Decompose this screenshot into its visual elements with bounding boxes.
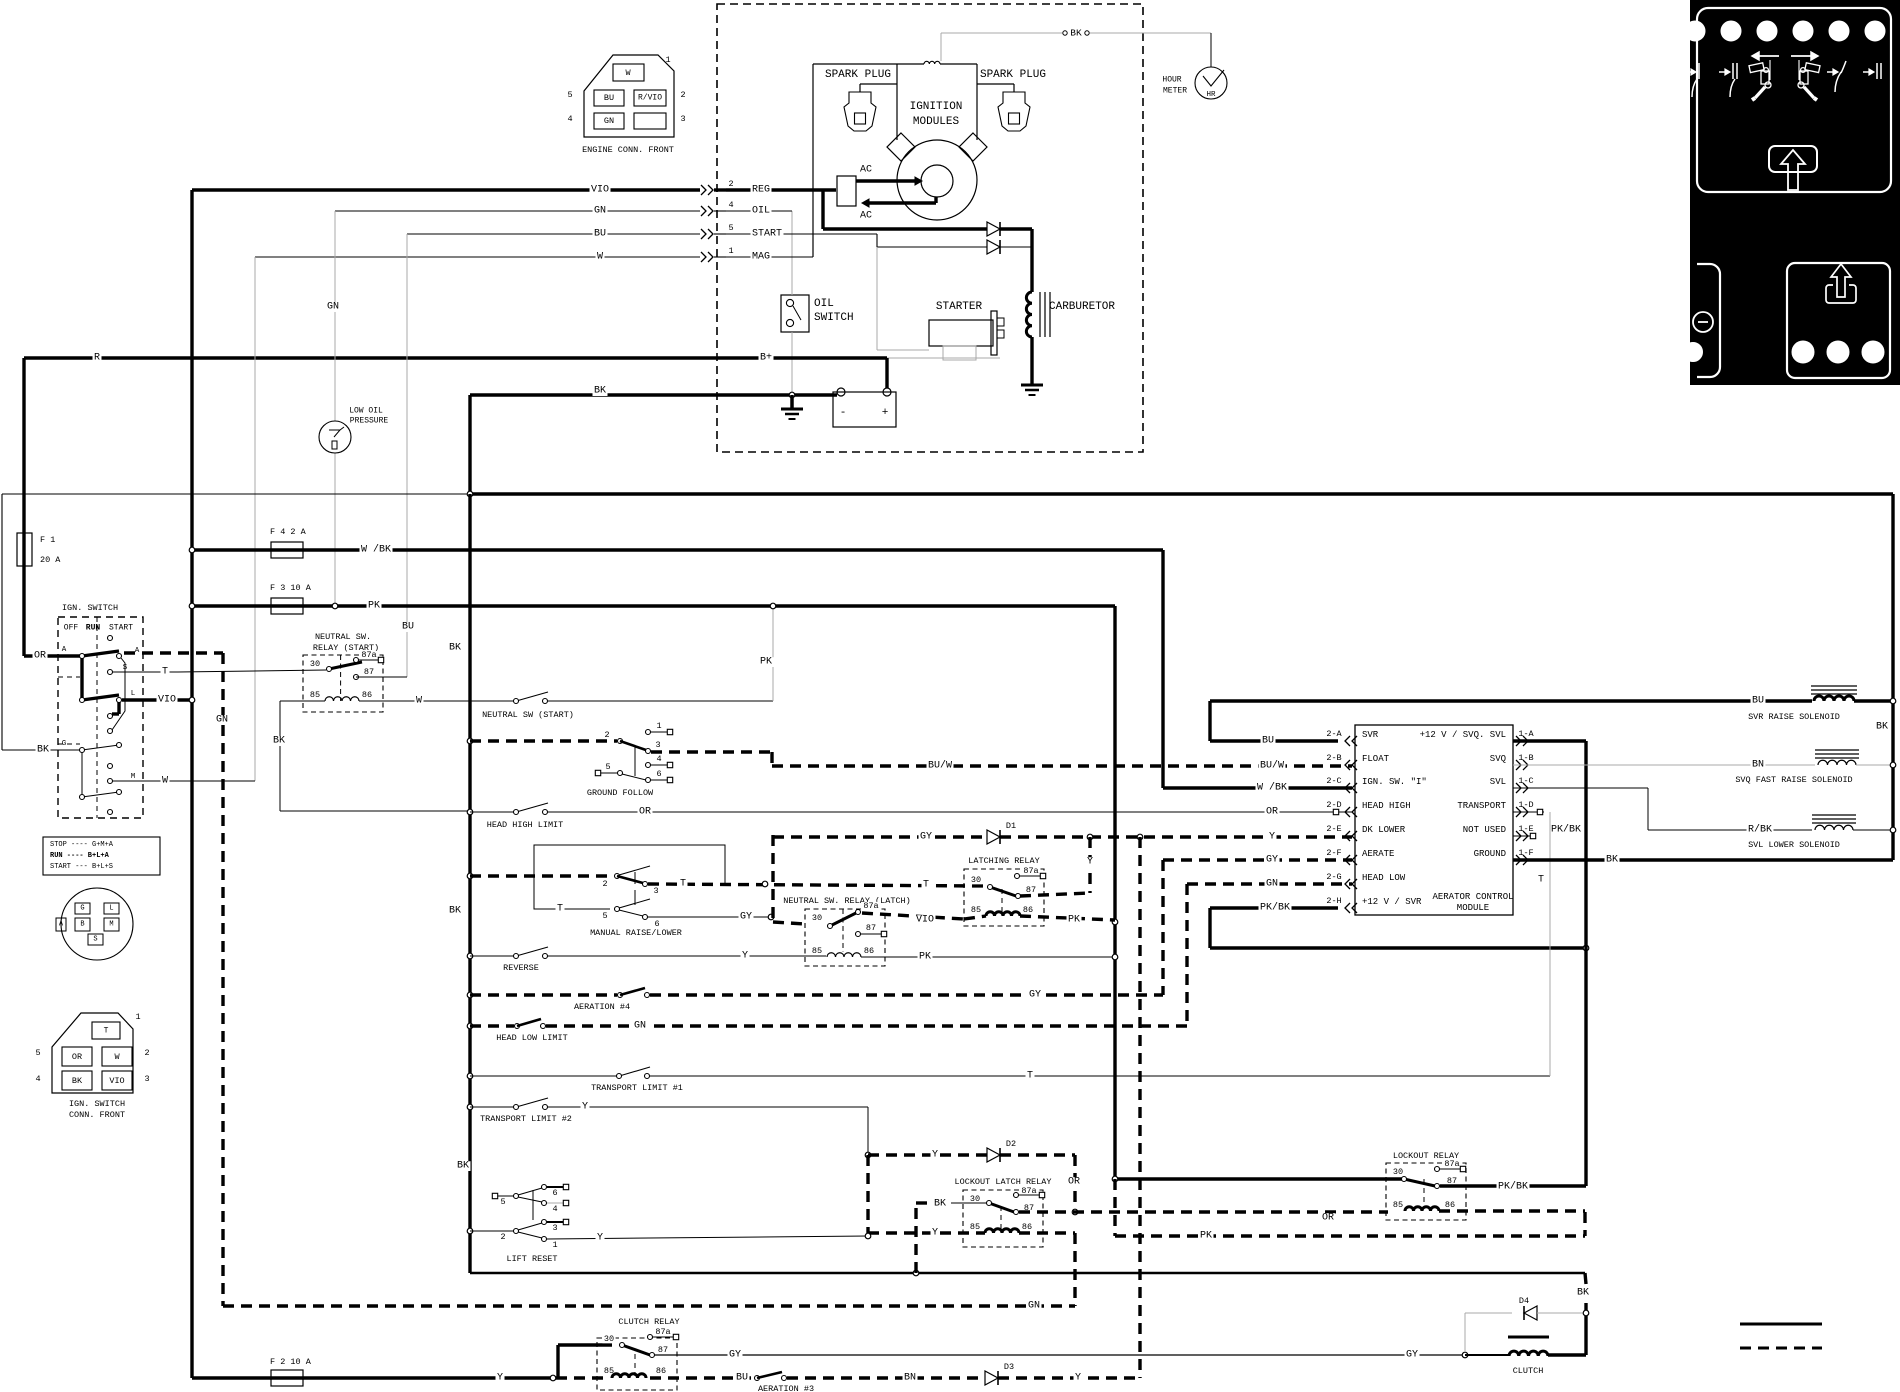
svg-text:86: 86	[864, 946, 874, 956]
svg-text:IGN. SWITCH: IGN. SWITCH	[62, 603, 118, 613]
svg-text:20 A: 20 A	[40, 555, 61, 565]
svg-text:2-C: 2-C	[1326, 776, 1341, 786]
svg-text:BK: BK	[449, 643, 461, 654]
svg-text:5: 5	[35, 1048, 40, 1058]
svg-text:A: A	[62, 646, 67, 654]
svg-text:D1: D1	[1006, 821, 1016, 831]
svg-text:2: 2	[604, 730, 609, 740]
svg-text:2-G: 2-G	[1326, 872, 1341, 882]
svg-text:NEUTRAL SW.: NEUTRAL SW.	[315, 632, 371, 642]
svg-text:REG: REG	[752, 185, 770, 196]
svg-text:BN: BN	[904, 1373, 916, 1384]
svg-text:OIL: OIL	[814, 298, 834, 310]
svg-text:OR: OR	[1068, 1177, 1080, 1188]
svg-text:GY: GY	[920, 832, 932, 843]
svg-text:5: 5	[500, 1197, 505, 1207]
svg-text:TRANSPORT: TRANSPORT	[1457, 801, 1506, 811]
svg-text:SVL: SVL	[1490, 777, 1506, 787]
svg-text:G: G	[62, 740, 67, 748]
svg-text:PK: PK	[1068, 915, 1080, 926]
svg-text:F 1: F 1	[40, 535, 55, 545]
svg-text:Y: Y	[582, 1102, 588, 1113]
svg-text:BN: BN	[1752, 760, 1764, 771]
svg-text:87: 87	[866, 923, 876, 933]
svg-text:MAG: MAG	[752, 252, 770, 263]
svg-text:4: 4	[656, 754, 661, 764]
svg-text:S: S	[93, 936, 97, 944]
svg-text:METER: METER	[1163, 87, 1187, 96]
svg-text:BU: BU	[1752, 696, 1764, 707]
svg-text:6: 6	[656, 769, 661, 779]
svg-text:Y: Y	[497, 1373, 503, 1384]
svg-text:1-A: 1-A	[1518, 729, 1534, 739]
svg-text:OFF: OFF	[64, 624, 79, 633]
svg-text:SVR: SVR	[1362, 730, 1379, 740]
svg-text:BK: BK	[1577, 1288, 1589, 1299]
svg-text:2-D: 2-D	[1326, 800, 1341, 810]
svg-text:FLOAT: FLOAT	[1362, 754, 1390, 764]
svg-text:AC: AC	[860, 211, 872, 222]
svg-text:BK: BK	[449, 906, 461, 917]
svg-text:BU/W: BU/W	[1260, 760, 1284, 772]
svg-text:G: G	[80, 905, 84, 913]
svg-text:START: START	[109, 624, 133, 633]
svg-text:B+: B+	[760, 353, 772, 364]
svg-text:R/BK: R/BK	[1748, 824, 1772, 836]
svg-text:RUN ---- B+L+A: RUN ---- B+L+A	[50, 852, 110, 860]
svg-text:CLUTCH: CLUTCH	[1513, 1366, 1544, 1376]
svg-text:5: 5	[602, 911, 607, 921]
svg-text:T: T	[162, 667, 168, 678]
svg-text:BK: BK	[1070, 28, 1082, 39]
svg-text:T: T	[680, 879, 686, 890]
svg-text:D3: D3	[1004, 1362, 1014, 1372]
svg-text:HEAD HIGH LIMIT: HEAD HIGH LIMIT	[487, 820, 564, 830]
svg-text:86: 86	[1023, 905, 1033, 915]
svg-text:GN: GN	[216, 715, 228, 726]
svg-text:AERATE: AERATE	[1362, 849, 1394, 859]
svg-text:T: T	[557, 904, 563, 915]
svg-text:BK: BK	[37, 745, 49, 756]
svg-text:D4: D4	[1519, 1296, 1529, 1306]
svg-text:SWITCH: SWITCH	[814, 312, 854, 324]
svg-text:1: 1	[135, 1012, 140, 1022]
svg-text:1: 1	[552, 1240, 557, 1250]
svg-text:3: 3	[655, 740, 660, 750]
svg-text:L: L	[131, 690, 136, 698]
svg-text:BU: BU	[736, 1373, 748, 1384]
svg-text:SVL LOWER SOLENOID: SVL LOWER SOLENOID	[1748, 840, 1840, 850]
svg-text:OR: OR	[639, 807, 651, 818]
svg-text:GN: GN	[604, 116, 614, 126]
svg-text:W /BK: W /BK	[361, 544, 391, 556]
svg-text:87a: 87a	[863, 901, 878, 911]
svg-text:LOCKOUT LATCH RELAY: LOCKOUT LATCH RELAY	[955, 1177, 1052, 1187]
svg-text:1: 1	[665, 55, 670, 65]
svg-text:HOUR: HOUR	[1162, 76, 1181, 85]
svg-text:STOP ---- G+M+A: STOP ---- G+M+A	[50, 841, 114, 849]
svg-text:SPARK PLUG: SPARK PLUG	[980, 69, 1046, 81]
svg-text:PK: PK	[919, 952, 931, 963]
svg-text:PK/BK: PK/BK	[1260, 902, 1290, 914]
svg-text:HEAD LOW LIMIT: HEAD LOW LIMIT	[496, 1033, 567, 1043]
svg-text:86: 86	[656, 1366, 666, 1376]
svg-text:BK: BK	[934, 1199, 946, 1210]
svg-text:2: 2	[680, 90, 685, 100]
svg-text:86: 86	[1022, 1222, 1032, 1232]
svg-text:HEAD LOW: HEAD LOW	[1362, 873, 1406, 883]
svg-text:GROUND FOLLOW: GROUND FOLLOW	[587, 788, 654, 798]
svg-text:Y: Y	[932, 1150, 938, 1161]
svg-text:GY: GY	[1406, 1350, 1418, 1361]
svg-text:BK: BK	[273, 736, 285, 747]
svg-text:SVQ FAST RAISE SOLENOID: SVQ FAST RAISE SOLENOID	[1735, 775, 1852, 785]
svg-text:OIL: OIL	[752, 206, 770, 217]
svg-text:4: 4	[552, 1204, 557, 1214]
svg-text:GY: GY	[740, 912, 752, 923]
svg-text:AC: AC	[860, 165, 872, 176]
svg-text:LOW OIL: LOW OIL	[349, 407, 383, 416]
svg-text:87a: 87a	[655, 1327, 670, 1337]
svg-text:86: 86	[362, 690, 372, 700]
svg-text:30: 30	[604, 1334, 614, 1344]
svg-text:+: +	[882, 407, 889, 419]
svg-text:AERATION #4: AERATION #4	[574, 1002, 630, 1012]
svg-text:CLUTCH RELAY: CLUTCH RELAY	[618, 1317, 679, 1327]
svg-text:1-B: 1-B	[1518, 753, 1533, 763]
svg-text:-: -	[840, 407, 847, 419]
svg-text:NEUTRAL SW. RELAY (LATCH): NEUTRAL SW. RELAY (LATCH)	[783, 896, 911, 906]
svg-text:W: W	[162, 776, 168, 787]
svg-text:GN: GN	[1266, 879, 1278, 890]
svg-text:TRANSPORT LIMIT #1: TRANSPORT LIMIT #1	[591, 1083, 683, 1093]
svg-text:2-E: 2-E	[1326, 824, 1341, 834]
svg-text:HEAD HIGH: HEAD HIGH	[1362, 801, 1411, 811]
svg-text:W: W	[416, 696, 422, 707]
svg-text:T: T	[1027, 1071, 1033, 1082]
svg-text:TRANSPORT LIMIT #2: TRANSPORT LIMIT #2	[480, 1114, 572, 1124]
svg-text:87: 87	[364, 667, 374, 677]
svg-text:2-H: 2-H	[1326, 896, 1341, 906]
svg-text:CONN. FRONT: CONN. FRONT	[69, 1110, 125, 1120]
svg-text:PK: PK	[368, 601, 380, 612]
svg-text:86: 86	[1445, 1200, 1455, 1210]
svg-text:BK: BK	[457, 1161, 469, 1172]
svg-text:W: W	[625, 68, 631, 78]
svg-text:LIFT RESET: LIFT RESET	[506, 1254, 557, 1264]
svg-text:2-B: 2-B	[1326, 753, 1341, 763]
svg-text:R: R	[94, 353, 100, 364]
svg-text:Y: Y	[597, 1233, 603, 1244]
svg-text:S: S	[123, 664, 128, 672]
svg-text:ENGINE CONN. FRONT: ENGINE CONN. FRONT	[582, 145, 674, 155]
svg-text:STARTER: STARTER	[936, 301, 983, 313]
svg-text:+12 V / SVQ. SVL: +12 V / SVQ. SVL	[1420, 730, 1506, 740]
svg-text:1-D: 1-D	[1518, 800, 1533, 810]
svg-text:87: 87	[1026, 885, 1036, 895]
svg-text:VIO: VIO	[158, 695, 176, 706]
svg-text:1: 1	[656, 721, 661, 731]
svg-text:SVR RAISE SOLENOID: SVR RAISE SOLENOID	[1748, 712, 1840, 722]
svg-text:85: 85	[970, 1222, 980, 1232]
svg-text:NEUTRAL SW (START): NEUTRAL SW (START)	[482, 710, 574, 720]
svg-text:5: 5	[728, 223, 733, 233]
svg-text:AERATION #3: AERATION #3	[758, 1384, 814, 1392]
svg-text:GY: GY	[1029, 990, 1041, 1001]
svg-text:REVERSE: REVERSE	[503, 963, 539, 973]
svg-text:BU: BU	[1262, 736, 1274, 747]
svg-text:4: 4	[567, 114, 572, 124]
svg-text:CARBURETOR: CARBURETOR	[1049, 301, 1115, 313]
svg-text:IGN. SWITCH: IGN. SWITCH	[69, 1099, 125, 1109]
svg-text:IGN. SW. "I": IGN. SW. "I"	[1362, 777, 1427, 787]
svg-text:T: T	[1538, 875, 1544, 886]
svg-text:PK/BK: PK/BK	[1498, 1181, 1528, 1193]
svg-text:VIO: VIO	[109, 1076, 124, 1086]
svg-text:MODULE: MODULE	[1457, 903, 1489, 913]
svg-text:87a: 87a	[1444, 1159, 1459, 1169]
svg-text:30: 30	[310, 659, 320, 669]
svg-text:M: M	[109, 921, 113, 929]
svg-text:GY: GY	[1266, 855, 1278, 866]
svg-text:87a: 87a	[361, 650, 376, 660]
svg-text:D2: D2	[1006, 1139, 1016, 1149]
svg-text:START: START	[752, 229, 782, 240]
svg-text:BU: BU	[402, 622, 414, 633]
svg-text:BU: BU	[604, 93, 614, 103]
svg-text:3: 3	[680, 114, 685, 124]
svg-text:GN: GN	[1028, 1301, 1040, 1312]
svg-text:GROUND: GROUND	[1474, 849, 1506, 859]
svg-text:OR: OR	[1322, 1213, 1334, 1224]
svg-text:PK/BK: PK/BK	[1551, 824, 1581, 836]
svg-text:A: A	[135, 647, 140, 655]
svg-text:OR: OR	[72, 1052, 82, 1062]
svg-text:IGNITION: IGNITION	[910, 101, 963, 113]
svg-text:RUN: RUN	[86, 624, 101, 633]
svg-text:M: M	[131, 773, 136, 781]
svg-text:SVQ: SVQ	[1490, 754, 1506, 764]
svg-text:85: 85	[812, 946, 822, 956]
svg-text:Y: Y	[742, 951, 748, 962]
svg-text:BK: BK	[594, 386, 606, 397]
svg-text:DK LOWER: DK LOWER	[1362, 825, 1406, 835]
svg-text:VIO: VIO	[916, 915, 934, 926]
svg-text:Y: Y	[1075, 1373, 1081, 1384]
svg-text:2-A: 2-A	[1326, 729, 1342, 739]
svg-text:T: T	[104, 1027, 109, 1036]
svg-text:START --- B+L+S: START --- B+L+S	[50, 863, 113, 871]
svg-text:3: 3	[653, 886, 658, 896]
svg-text:F 2 10 A: F 2 10 A	[270, 1357, 312, 1367]
svg-text:5: 5	[605, 762, 610, 772]
svg-text:BK: BK	[72, 1076, 83, 1086]
svg-text:+12 V / SVR: +12 V / SVR	[1362, 897, 1422, 907]
svg-text:SPARK PLUG: SPARK PLUG	[825, 69, 891, 81]
svg-text:3: 3	[552, 1223, 557, 1233]
svg-text:GN: GN	[594, 206, 606, 217]
svg-text:2: 2	[144, 1048, 149, 1058]
svg-text:MODULES: MODULES	[913, 116, 960, 128]
svg-text:85: 85	[971, 905, 981, 915]
svg-text:PRESSURE: PRESSURE	[350, 417, 389, 426]
svg-text:Y: Y	[932, 1228, 938, 1239]
svg-text:Y: Y	[1269, 832, 1275, 843]
svg-text:L: L	[109, 905, 113, 913]
svg-text:85: 85	[310, 690, 320, 700]
svg-text:6: 6	[552, 1188, 557, 1198]
svg-text:3: 3	[144, 1074, 149, 1084]
svg-text:PK: PK	[1200, 1231, 1212, 1242]
svg-text:B: B	[80, 921, 84, 929]
svg-text:OR: OR	[1266, 807, 1278, 818]
svg-text:GY: GY	[729, 1350, 741, 1361]
svg-text:GN: GN	[327, 302, 339, 313]
svg-text:NOT USED: NOT USED	[1463, 825, 1506, 835]
svg-text:4: 4	[728, 200, 733, 210]
svg-text:85: 85	[1393, 1200, 1403, 1210]
svg-text:87: 87	[658, 1345, 668, 1355]
svg-text:1-C: 1-C	[1518, 776, 1533, 786]
svg-text:2: 2	[602, 879, 607, 889]
svg-text:AERATOR CONTROL: AERATOR CONTROL	[1432, 892, 1513, 902]
svg-text:T: T	[923, 880, 929, 891]
svg-text:1-F: 1-F	[1518, 848, 1533, 858]
svg-text:BU/W: BU/W	[928, 760, 952, 772]
svg-text:HR: HR	[1206, 91, 1216, 99]
svg-text:VIO: VIO	[591, 185, 609, 196]
svg-text:30: 30	[812, 913, 822, 923]
svg-text:30: 30	[1393, 1167, 1403, 1177]
svg-text:BK: BK	[1876, 722, 1888, 733]
svg-text:BU: BU	[594, 229, 606, 240]
svg-text:W: W	[597, 252, 603, 263]
svg-text:30: 30	[971, 875, 981, 885]
svg-text:1: 1	[728, 246, 733, 256]
svg-text:F 3 10 A: F 3 10 A	[270, 583, 312, 593]
svg-text:2-F: 2-F	[1326, 848, 1341, 858]
svg-text:R/VIO: R/VIO	[638, 94, 662, 103]
svg-text:MANUAL RAISE/LOWER: MANUAL RAISE/LOWER	[590, 928, 682, 938]
svg-text:F 4 2 A: F 4 2 A	[270, 527, 307, 537]
svg-text:PK: PK	[760, 657, 772, 668]
svg-text:LATCHING RELAY: LATCHING RELAY	[968, 856, 1039, 866]
svg-text:W /BK: W /BK	[1257, 782, 1287, 794]
svg-text:2: 2	[500, 1232, 505, 1242]
svg-text:1-E: 1-E	[1518, 824, 1533, 834]
svg-text:Y: Y	[1087, 857, 1093, 868]
svg-text:4: 4	[35, 1074, 40, 1084]
svg-text:87a: 87a	[1023, 866, 1038, 876]
svg-text:BK: BK	[1606, 855, 1618, 866]
svg-text:5: 5	[567, 90, 572, 100]
svg-text:GN: GN	[634, 1021, 646, 1032]
svg-text:2: 2	[728, 179, 733, 189]
svg-text:W: W	[114, 1052, 120, 1062]
svg-text:OR: OR	[34, 651, 46, 662]
